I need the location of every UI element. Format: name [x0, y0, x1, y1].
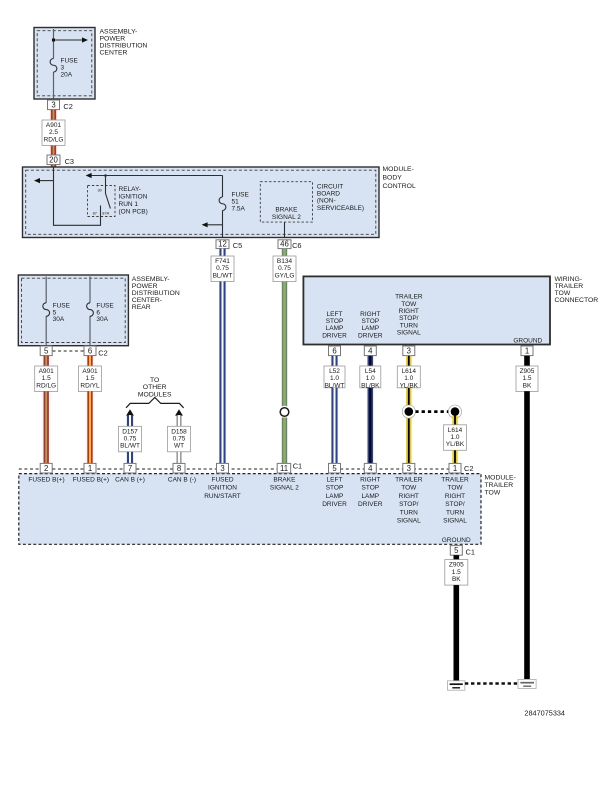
- svg-text:1: 1: [525, 346, 529, 355]
- arrow: fused ignition branch left: [207, 224, 222, 226]
- fuse F6: [87, 303, 94, 317]
- svg-text:Z905: Z905: [449, 562, 464, 569]
- svg-text:BL/WT: BL/WT: [120, 443, 140, 450]
- svg-text:2847075334: 2847075334: [524, 708, 565, 717]
- svg-text:1: 1: [88, 464, 92, 473]
- splice dotted link: [409, 410, 455, 413]
- connector C1 pin 7: [124, 463, 136, 473]
- svg-text:FUSED B(+): FUSED B(+): [73, 477, 109, 484]
- svg-text:GY/LG: GY/LG: [275, 272, 295, 279]
- svg-text:46: 46: [280, 239, 289, 248]
- svg-text:DRIVER: DRIVER: [322, 332, 347, 339]
- connector C2 pin 3: [48, 100, 60, 110]
- fuse F51: [219, 197, 226, 211]
- connector pin 6 (L52): [329, 346, 341, 356]
- svg-text:C6: C6: [292, 241, 301, 250]
- connector C2 pin 1: [449, 463, 461, 473]
- wire B134 0.75 GY/LG run to splice: [282, 282, 287, 407]
- svg-text:RIGHT: RIGHT: [360, 311, 380, 318]
- wire label D158 0.75 WT: [168, 426, 191, 452]
- wire label F741 0.75 BL/WT: [211, 256, 234, 282]
- svg-text:STOP: STOP: [326, 318, 344, 325]
- svg-text:A901: A901: [39, 368, 55, 375]
- svg-text:SIGNAL: SIGNAL: [397, 330, 421, 337]
- svg-text:1.5: 1.5: [522, 375, 531, 382]
- svg-text:4: 4: [368, 464, 373, 473]
- svg-text:RIGHT: RIGHT: [399, 308, 419, 315]
- svg-text:STOP: STOP: [362, 318, 380, 325]
- wire: internal feed fuse 5: [45, 277, 47, 303]
- connector C1 pin 11: [277, 463, 291, 473]
- wire L614 1.0 YL/BK branch lower: [452, 450, 457, 463]
- svg-text:RIGHT: RIGHT: [360, 477, 380, 484]
- svg-text:RUN 1: RUN 1: [119, 201, 139, 208]
- wire: internal feed fuse 6: [89, 277, 91, 303]
- svg-text:MODULE-: MODULE-: [485, 475, 516, 482]
- wire F741 0.75 BL/WT long run: [219, 282, 225, 464]
- svg-text:5: 5: [44, 346, 49, 355]
- svg-text:0.75: 0.75: [216, 265, 229, 272]
- svg-text:RIGHT: RIGHT: [399, 493, 419, 500]
- svg-text:TRAILER: TRAILER: [441, 477, 469, 484]
- svg-text:C2: C2: [63, 102, 72, 111]
- wire: down to fuse 51: [222, 176, 224, 198]
- brace: to other modules: [126, 398, 184, 408]
- ground G2 (trailer tow connector): [518, 679, 536, 688]
- connector C1 pin 8: [173, 463, 185, 473]
- svg-text:SIGNAL: SIGNAL: [397, 518, 421, 525]
- svg-text:L52: L52: [329, 368, 340, 375]
- arrow: branch to other circuits (right): [54, 39, 83, 41]
- connector C6 pin 46: [278, 240, 291, 249]
- svg-text:LAMP: LAMP: [361, 325, 379, 332]
- wire A901 1.5 RD/LG run: [44, 391, 49, 463]
- svg-text:L614: L614: [402, 368, 417, 375]
- connector C1 pin 5 (ground): [450, 546, 462, 556]
- connector C1 pin 3: [217, 463, 229, 473]
- dashed connector row line C1/C2: [19, 468, 278, 470]
- svg-text:6: 6: [332, 346, 336, 355]
- svg-text:1.0: 1.0: [330, 375, 339, 382]
- svg-text:LAMP: LAMP: [326, 493, 344, 500]
- connector C5 pin 12: [216, 240, 229, 249]
- svg-text:C2: C2: [464, 464, 473, 473]
- svg-text:Z905: Z905: [520, 368, 535, 375]
- svg-text:STOP/: STOP/: [445, 501, 465, 508]
- svg-text:(ON PCB): (ON PCB): [119, 208, 148, 215]
- svg-text:DRIVER: DRIVER: [358, 332, 383, 339]
- svg-text:TOW: TOW: [401, 485, 417, 492]
- relay: ignition run 1 (on PCB): [88, 186, 116, 217]
- svg-text:0.75: 0.75: [278, 265, 291, 272]
- svg-text:TRAILER: TRAILER: [485, 482, 514, 489]
- connector C2 pin 5: [329, 463, 341, 473]
- wire: relay output bus with arrow: [91, 175, 222, 177]
- wire Z905 1.5 BK stub (module): [454, 555, 460, 559]
- svg-text:GROUND: GROUND: [442, 537, 471, 544]
- dashed link between rear C2 pins: [53, 350, 85, 352]
- svg-text:3: 3: [407, 346, 411, 355]
- svg-text:0.75: 0.75: [173, 436, 186, 443]
- svg-text:3: 3: [407, 464, 411, 473]
- wire A901 2.5 RD/LG upper segment: [51, 110, 56, 120]
- svg-text:6: 6: [88, 346, 92, 355]
- wire L52 1.0 BL/WT run: [331, 388, 337, 464]
- svg-text:TOW: TOW: [447, 485, 463, 492]
- wire label L52 1.0 BL/WT: [324, 366, 345, 388]
- svg-text:LEFT: LEFT: [327, 477, 343, 484]
- svg-text:REAR: REAR: [132, 304, 151, 311]
- svg-text:30A: 30A: [53, 316, 65, 323]
- svg-text:L54: L54: [365, 368, 376, 375]
- wire L614 1.0 YL/BK run: [406, 388, 411, 464]
- inline connector bullet on B134: [278, 406, 291, 419]
- arrow: CAN B (-) to other modules: [175, 409, 183, 415]
- wire label Z905 1.5 BK (module): [445, 560, 468, 586]
- connector pin 4 (L54): [364, 346, 376, 356]
- svg-text:RD/LG: RD/LG: [36, 382, 56, 389]
- svg-text:1.5: 1.5: [42, 375, 51, 382]
- wire Z905 1.5 BK stub: [524, 356, 530, 366]
- wire D157 0.75 BL/WT lower: [127, 452, 133, 464]
- svg-text:4: 4: [368, 346, 373, 355]
- svg-text:BK: BK: [452, 576, 461, 583]
- svg-text:YL/BK: YL/BK: [446, 441, 465, 448]
- svg-text:SIGNAL 2: SIGNAL 2: [270, 485, 299, 492]
- svg-text:20A: 20A: [61, 71, 73, 78]
- svg-text:STOP: STOP: [362, 485, 380, 492]
- connector C2 pin 3: [403, 463, 415, 473]
- connector C3 pin 20: [47, 155, 60, 165]
- svg-text:CAN B (+): CAN B (+): [115, 477, 145, 484]
- wire D158 0.75 WT lower: [177, 452, 182, 464]
- svg-text:CONTROL: CONTROL: [383, 183, 416, 190]
- svg-text:TRAILER: TRAILER: [395, 294, 423, 301]
- svg-text:RIGHT: RIGHT: [445, 493, 465, 500]
- arrow: internal branch left: [40, 180, 54, 182]
- svg-text:LAMP: LAMP: [326, 325, 344, 332]
- dotted ground link: [465, 682, 518, 684]
- svg-text:BL/WT: BL/WT: [213, 272, 233, 279]
- svg-text:F741: F741: [215, 258, 230, 265]
- wire label B134 0.75 GY/LG: [273, 256, 296, 282]
- svg-text:5: 5: [454, 546, 459, 555]
- box: assembly - power distribution center - rear: [18, 275, 128, 346]
- ground G1 (module trailer tow): [448, 681, 465, 690]
- wire Z905 1.5 BK run to ground (module): [454, 585, 460, 681]
- svg-text:SIGNAL: SIGNAL: [443, 518, 467, 525]
- wire D157 0.75 BL/WT upper: [127, 415, 133, 426]
- connector C2 pin 4: [364, 463, 376, 473]
- svg-text:L614: L614: [448, 427, 463, 434]
- wire label A901 1.5 RD/YL: [79, 366, 102, 392]
- svg-text:SERVICEABLE): SERVICEABLE): [317, 205, 364, 212]
- svg-text:IGNITION: IGNITION: [208, 485, 237, 492]
- svg-text:STOP: STOP: [326, 485, 344, 492]
- svg-text:BRAKE: BRAKE: [273, 477, 296, 484]
- svg-text:0.75: 0.75: [124, 436, 137, 443]
- svg-text:5: 5: [332, 464, 337, 473]
- svg-text:A901: A901: [82, 368, 98, 375]
- wire D158 0.75 WT upper: [177, 415, 182, 426]
- svg-text:1.0: 1.0: [404, 375, 413, 382]
- connector C2 (rear) pin 5: [40, 346, 52, 356]
- svg-text:BK: BK: [523, 382, 532, 389]
- box: module - trailer tow: [19, 474, 481, 545]
- splice node on L614: [402, 405, 415, 418]
- svg-text:IGNITION: IGNITION: [119, 194, 148, 201]
- wire label D157 0.75 BL/WT: [119, 426, 142, 452]
- wire L54 1.0 BL/BK run: [368, 388, 374, 464]
- svg-text:30A: 30A: [96, 316, 108, 323]
- svg-text:DRIVER: DRIVER: [322, 501, 347, 508]
- svg-text:BODY: BODY: [383, 174, 403, 181]
- wire F741 0.75 BL/WT upper stub: [219, 249, 225, 256]
- wire: BCM internal from pin 20: [54, 167, 101, 225]
- wire L614 1.0 YL/BK branch upper: [452, 416, 457, 425]
- wire A901 2.5 RD/LG lower segment: [51, 146, 56, 156]
- svg-text:2.5: 2.5: [49, 129, 58, 136]
- svg-text:STOP/: STOP/: [399, 501, 419, 508]
- svg-text:C2: C2: [98, 348, 107, 357]
- svg-text:C1: C1: [293, 462, 302, 471]
- svg-text:MODULE-: MODULE-: [383, 166, 414, 173]
- svg-text:2: 2: [44, 464, 48, 473]
- fuse F5: [43, 303, 50, 317]
- svg-text:87: 87: [93, 211, 97, 216]
- svg-text:TURN: TURN: [400, 509, 418, 516]
- svg-text:1.5: 1.5: [452, 569, 461, 576]
- svg-text:TOW: TOW: [485, 490, 501, 497]
- svg-text:7: 7: [128, 464, 132, 473]
- wire A901 1.5 RD/YL stub: [87, 356, 92, 366]
- svg-text:CIRCUIT: CIRCUIT: [317, 183, 343, 190]
- svg-text:12: 12: [218, 239, 227, 248]
- svg-text:SIGNAL 2: SIGNAL 2: [272, 214, 301, 221]
- svg-text:C3: C3: [65, 157, 74, 166]
- svg-text:C5: C5: [233, 241, 242, 250]
- svg-text:TO: TO: [150, 377, 159, 384]
- wire label L614 1.0 YL/BK (branch): [444, 425, 467, 451]
- connector pin 1 (Z905): [521, 346, 533, 356]
- box: wiring - trailer tow connector: [303, 276, 550, 344]
- wire B134 0.75 GY/LG run to module: [282, 418, 287, 464]
- svg-text:1: 1: [453, 464, 457, 473]
- svg-text:1.0: 1.0: [366, 375, 375, 382]
- svg-text:CENTER: CENTER: [100, 49, 128, 56]
- svg-text:FUSED: FUSED: [211, 477, 233, 484]
- svg-text:RELAY-: RELAY-: [119, 186, 141, 193]
- wire label L614 1.0 YL/BK: [397, 366, 420, 388]
- svg-text:FUSED B(+): FUSED B(+): [28, 477, 64, 484]
- wire: internal feed inside APDC: [53, 29, 55, 59]
- svg-text:WT: WT: [174, 443, 184, 450]
- box: assembly - power distribution center: [34, 28, 95, 100]
- wire A901 1.5 RD/LG stub: [44, 356, 49, 366]
- arrow: CAN B (+) to other modules: [126, 409, 134, 415]
- svg-text:3: 3: [51, 100, 55, 109]
- svg-text:CONNECTOR: CONNECTOR: [555, 297, 599, 304]
- wire Z905 1.5 BK run to ground: [524, 391, 530, 679]
- svg-text:OTHER: OTHER: [143, 384, 167, 391]
- svg-text:87A: 87A: [102, 211, 109, 216]
- wire label Z905 1.5 BK: [516, 366, 538, 392]
- connector C2 (rear) pin 6: [84, 346, 96, 356]
- splice node branch: [448, 405, 461, 418]
- wire: brake signal 2 to pin 46: [284, 222, 286, 237]
- svg-text:RUN/START: RUN/START: [204, 493, 241, 500]
- wire L52 1.0 BL/WT stub: [331, 356, 337, 366]
- box: module - body control: [23, 167, 380, 238]
- svg-text:B134: B134: [277, 258, 293, 265]
- svg-text:TURN: TURN: [446, 509, 464, 516]
- svg-text:RD/LG: RD/LG: [44, 136, 64, 143]
- svg-text:D157: D157: [122, 428, 138, 435]
- svg-text:TURN: TURN: [400, 322, 418, 329]
- svg-text:7.5A: 7.5A: [232, 205, 246, 212]
- svg-text:D158: D158: [171, 428, 187, 435]
- wire A901 1.5 RD/YL run: [87, 391, 92, 463]
- wire label L54 1.0 BL/BK: [360, 366, 381, 388]
- svg-text:BRAKE: BRAKE: [275, 207, 298, 214]
- wire label A901 1.5 RD/LG: [35, 366, 58, 392]
- connector pin 3 (L614): [403, 346, 415, 356]
- relay switch blade: [106, 194, 111, 209]
- svg-text:LEFT: LEFT: [327, 311, 343, 318]
- svg-text:11: 11: [280, 464, 288, 473]
- svg-text:LAMP: LAMP: [361, 493, 379, 500]
- wire stub into BCM: [51, 165, 56, 167]
- svg-text:CAN B (-): CAN B (-): [168, 477, 196, 484]
- svg-text:A901: A901: [46, 122, 62, 129]
- svg-text:RD/YL: RD/YL: [80, 382, 100, 389]
- svg-text:DRIVER: DRIVER: [358, 501, 383, 508]
- connector C1 pin 1: [84, 463, 96, 473]
- wire label A901 2.5 RD/LG: [42, 120, 65, 146]
- connector C1 pin 2: [40, 463, 52, 473]
- wire L614 1.0 YL/BK stub: [406, 356, 411, 366]
- svg-text:3: 3: [220, 464, 224, 473]
- fuse F3: [50, 59, 57, 73]
- wire: fuse 51 output: [222, 211, 224, 238]
- wire L54 1.0 BL/BK stub: [368, 356, 374, 366]
- svg-text:TOW: TOW: [401, 301, 417, 308]
- svg-text:STOP/: STOP/: [399, 315, 419, 322]
- svg-text:GROUND: GROUND: [513, 337, 542, 344]
- svg-text:8: 8: [177, 464, 181, 473]
- svg-text:1.5: 1.5: [85, 375, 94, 382]
- svg-text:1.0: 1.0: [450, 434, 459, 441]
- svg-text:(NON-: (NON-: [317, 198, 336, 205]
- svg-text:TRAILER: TRAILER: [395, 477, 423, 484]
- svg-text:20: 20: [49, 155, 58, 164]
- svg-text:BOARD: BOARD: [317, 191, 340, 198]
- circuit board (non-serviceable) dashed outline: [260, 182, 312, 222]
- wire B134 0.75 GY/LG upper stub: [282, 249, 287, 256]
- svg-text:C1: C1: [466, 547, 475, 556]
